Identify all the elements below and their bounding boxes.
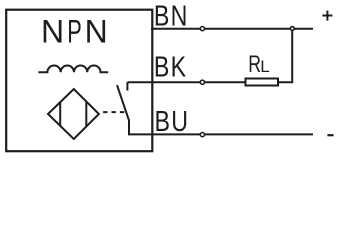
mechanical link (dashed): [103, 111, 124, 113]
terminal on BK: [200, 80, 204, 84]
load resistor RL: [246, 79, 279, 86]
junction on BN: [290, 27, 294, 31]
svg-text:BU: BU: [155, 105, 190, 138]
svg-text:BK: BK: [154, 50, 188, 83]
diamond left chord: [59, 102, 61, 127]
diamond right chord: [85, 102, 87, 127]
switch S1 fixed contact stub: [126, 82, 128, 90]
svg-text:L: L: [260, 57, 269, 76]
minus terminal: [327, 134, 333, 136]
inductor L1 (sensor coil): [38, 66, 108, 73]
svg-text:N: N: [41, 14, 64, 50]
terminal on BN: [200, 27, 204, 31]
sensor body box U1: [6, 10, 152, 152]
wire BU (blue, -): [128, 133, 313, 135]
svg-text:P: P: [67, 13, 82, 49]
wire BN (brown, +): [151, 28, 313, 30]
svg-text:N: N: [85, 14, 108, 50]
proximity sensor symbol (diamond): [48, 89, 99, 139]
svg-text:BN: BN: [154, 0, 189, 32]
switch S1 lower conductor: [128, 120, 130, 135]
wire BK (black, output): [127, 81, 244, 83]
plus terminal: [322, 11, 332, 21]
terminal on BU: [200, 133, 204, 137]
wire resistor to + rail: [279, 29, 292, 82]
switch S1 lever: [117, 85, 129, 120]
svg-text:R: R: [248, 50, 261, 78]
